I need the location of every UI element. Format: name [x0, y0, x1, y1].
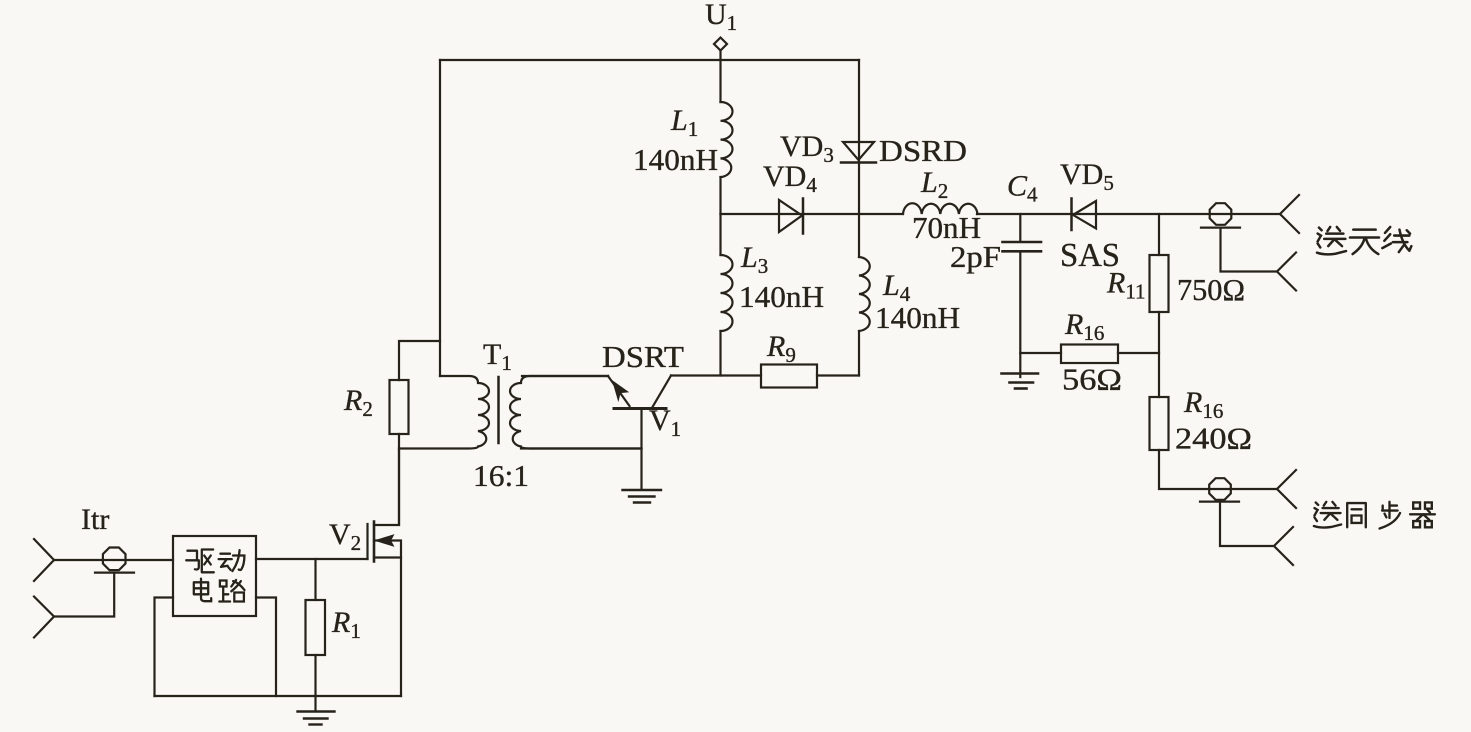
mosfet V2 gate wire — [256, 558, 368, 560]
wire ground stem bottom — [314, 696, 316, 710]
text to-antenna xian — [1382, 227, 1411, 252]
wire L4 upper stem — [858, 214, 860, 257]
transistor V1 collector diagonal — [653, 376, 672, 408]
connector bar Itr — [95, 571, 134, 573]
wire secondary bottom — [521, 447, 642, 449]
svg-text:R9: R9 — [766, 330, 796, 367]
transformer T1 core — [497, 377, 500, 443]
wire V1 base stem — [640, 410, 642, 489]
wire R2 top — [399, 341, 440, 380]
svg-text:R2: R2 — [343, 384, 373, 421]
transistor V1 emitter wire — [522, 375, 608, 377]
diode VD4 — [779, 199, 803, 234]
terminal chevron sync bottom — [1274, 527, 1293, 565]
resistor R16 240 — [1150, 397, 1169, 450]
svg-text:750Ω: 750Ω — [1177, 272, 1245, 307]
text to-antenna tian — [1350, 230, 1379, 254]
text to-sync tong — [1347, 503, 1366, 527]
svg-text:L1: L1 — [670, 104, 698, 141]
wire left rail — [439, 60, 441, 376]
wire collector to R9 — [671, 374, 761, 376]
resistor R9 — [761, 365, 817, 388]
svg-text:140nH: 140nH — [875, 300, 960, 335]
svg-text:U1: U1 — [705, 0, 737, 35]
resistor R16 56 — [1061, 345, 1118, 364]
wire top rail — [440, 59, 859, 61]
text to-sync song — [1314, 502, 1341, 528]
terminal chevron antenna bottom — [1277, 253, 1296, 291]
mosfet V2 channel dashes — [373, 522, 376, 562]
transistor V1 base bar — [614, 407, 666, 410]
inductor L4 — [859, 257, 870, 331]
resistor R1 — [306, 600, 326, 655]
text drive-circuit line2 dian — [194, 579, 211, 602]
svg-text:DSRT: DSRT — [602, 339, 684, 374]
wire feedback left stub — [155, 598, 174, 697]
wire 56ohm to rail — [1118, 352, 1159, 354]
mosfet V2 source lead — [374, 556, 401, 558]
resistor R2 — [390, 380, 409, 434]
inductor L1 — [721, 102, 733, 177]
svg-text:L3: L3 — [740, 241, 768, 278]
transformer T1 secondary winding — [510, 376, 642, 449]
wire Itr lower branch — [54, 573, 114, 617]
svg-text:140nH: 140nH — [633, 142, 718, 177]
wire right rail upper — [858, 60, 860, 214]
text to-sync bu — [1380, 502, 1400, 529]
connector circle Itr — [103, 548, 126, 571]
svg-text:VD4: VD4 — [763, 160, 817, 197]
svg-text:R16: R16 — [1183, 386, 1223, 423]
svg-text:140nH: 140nH — [739, 279, 824, 314]
wire L1 to mid rail — [719, 177, 721, 214]
svg-text:DSRD: DSRD — [879, 133, 967, 168]
wire L3 upper stem — [719, 214, 721, 255]
wire box to R1 junction — [314, 559, 316, 600]
wire antenna lower branch — [1221, 228, 1278, 272]
wire Itr to box — [54, 559, 173, 561]
transformer T1 primary winding — [399, 376, 489, 449]
wire R1 bottom — [314, 655, 316, 696]
mosfet V2 body lead — [374, 541, 401, 697]
terminal chevron Itr bottom — [34, 597, 54, 638]
wire L3 lower stem — [719, 331, 721, 376]
connector bar antenna — [1201, 227, 1240, 229]
svg-text:C4: C4 — [1007, 170, 1038, 207]
transistor V1 emitter diagonal — [608, 376, 630, 406]
text drive-circuit line1 qu — [186, 550, 214, 573]
connector bar sync — [1200, 501, 1239, 503]
drive circuit box — [173, 536, 256, 616]
mosfet V2 gate electrode — [366, 524, 368, 559]
wire R11 to junction — [1158, 312, 1160, 397]
terminal chevron antenna top — [1280, 195, 1299, 233]
ground under V1 — [623, 490, 662, 503]
wire bottom rail — [155, 695, 402, 697]
resistor R11 — [1150, 255, 1169, 312]
node U1 — [705, 0, 737, 60]
text drive-circuit line2 lu — [219, 580, 244, 602]
svg-text:R1: R1 — [331, 606, 361, 643]
connector circle antenna — [1210, 203, 1232, 225]
diode VD3 — [841, 142, 876, 163]
svg-text:Itr: Itr — [81, 503, 109, 536]
wire R9 to L4 rail — [817, 374, 859, 376]
inductor L2 — [903, 203, 977, 214]
connector circle sync — [1209, 478, 1231, 500]
wire 56ohm branch — [1020, 352, 1061, 354]
text to-sync qi — [1410, 502, 1435, 527]
terminal chevron sync top — [1277, 470, 1296, 508]
svg-text:VD5: VD5 — [1060, 158, 1114, 195]
ground bottom — [298, 712, 335, 725]
wire R16 to sync — [1159, 450, 1277, 489]
capacitor C4 — [1003, 214, 1042, 377]
svg-text:R11: R11 — [1106, 267, 1146, 304]
transistor V1 emitter arrow — [613, 381, 628, 400]
mosfet V2 drain lead — [374, 449, 399, 526]
inductor L3 — [721, 255, 733, 331]
wire R2 bottom to drain — [398, 434, 400, 525]
text drive-circuit line1 dong — [219, 550, 245, 571]
svg-text:2pF: 2pF — [950, 239, 1001, 274]
wire feedback right stub — [256, 598, 276, 697]
text to-antenna song — [1317, 227, 1346, 254]
diode VD5 — [1072, 199, 1097, 231]
svg-text:T1: T1 — [483, 338, 512, 375]
svg-text:V2: V2 — [329, 518, 361, 555]
svg-text:56Ω: 56Ω — [1062, 362, 1122, 397]
wire mid horizontal right — [977, 213, 1280, 215]
wire sync lower branch — [1220, 502, 1274, 546]
svg-text:V1: V1 — [649, 404, 681, 441]
svg-text:240Ω: 240Ω — [1175, 421, 1252, 456]
wire U1 stem to L1 — [719, 60, 721, 102]
wire L4 lower stem — [858, 331, 860, 376]
terminal chevron Itr top — [34, 539, 54, 581]
mosfet V2 body arrow — [376, 535, 394, 546]
svg-text:R16: R16 — [1064, 308, 1104, 345]
wire R11 rail — [1158, 214, 1160, 255]
svg-text:16:1: 16:1 — [473, 458, 529, 493]
ground under C4 — [1002, 374, 1039, 389]
svg-text:L2: L2 — [920, 166, 948, 203]
wire mid horizontal left — [721, 213, 904, 215]
